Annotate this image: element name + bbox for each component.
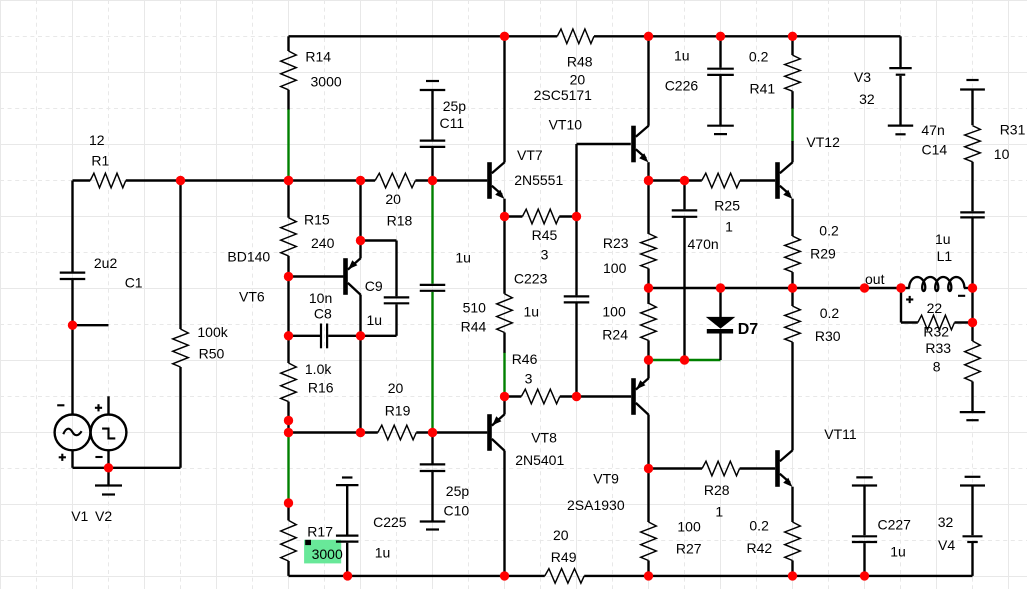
- label R49 value 20: [553, 527, 569, 543]
- junction dot R23-R24: [644, 283, 653, 292]
- inductor L1 plus: [906, 296, 913, 303]
- svg-text:20: 20: [553, 527, 569, 543]
- wire VT9 collector lead: [647, 415, 649, 469]
- wire R16 bottom lead: [287, 402, 289, 421]
- wire R44 bottom lead: [503, 333, 505, 353]
- junction dot R32 right: [968, 318, 977, 327]
- svg-text:25p: 25p: [443, 98, 467, 114]
- selection highlight: [304, 540, 341, 564]
- wire R18 to VT7 base: [415, 179, 487, 181]
- wire R17 top lead: [287, 503, 289, 520]
- wire (green) R16 node down to R17: [287, 433, 289, 503]
- wire R31 top lead: [971, 89, 973, 125]
- wire C9 top: [361, 241, 397, 297]
- label 470n value: [688, 236, 719, 252]
- wire (green) R44 bottom to VT8 node: [503, 352, 505, 396]
- junction dot VT7 emitter: [500, 212, 509, 221]
- svg-text:R41: R41: [750, 80, 776, 96]
- svg-text:1u: 1u: [674, 48, 690, 64]
- junction dot R19 row left: [284, 428, 293, 437]
- wire V2 top lead: [107, 396, 109, 415]
- wire 470n top lead: [683, 181, 685, 210]
- svg-text:R15: R15: [304, 211, 330, 227]
- svg-text:100: 100: [602, 303, 626, 319]
- capacitor C223: [564, 296, 590, 302]
- label C1 value 2u2: [94, 255, 118, 271]
- wire R27 top lead: [647, 469, 649, 523]
- label C223 value 1u: [524, 303, 540, 319]
- capacitor C10: [420, 464, 446, 471]
- svg-text:R27: R27: [676, 540, 702, 556]
- transistor VT10: [631, 126, 649, 163]
- wire VT11 emitter lead: [791, 487, 793, 522]
- transistor VT8: [487, 414, 505, 451]
- wire VT10 base wire: [577, 143, 631, 145]
- wire R32 jog: [901, 288, 918, 323]
- inductor L1: [901, 277, 973, 291]
- resistor R32: [918, 315, 955, 330]
- wire R30 top lead: [791, 288, 793, 306]
- label R14: [305, 49, 331, 65]
- resistor R28: [702, 461, 740, 476]
- junction dot L1 left: [896, 283, 905, 292]
- junction dot R18 right: [428, 176, 437, 185]
- svg-text:2u2: 2u2: [94, 255, 118, 271]
- svg-text:3000: 3000: [311, 74, 342, 90]
- svg-text:R17: R17: [307, 524, 333, 540]
- svg-text:32: 32: [859, 91, 875, 107]
- svg-text:R50: R50: [199, 345, 225, 361]
- svg-text:R1: R1: [91, 152, 109, 168]
- capacitor C8: [321, 324, 327, 349]
- label C14: [922, 142, 948, 158]
- label VT11: [824, 426, 857, 442]
- wire R17 bottom lead: [287, 561, 289, 576]
- junction dot C227 rail: [860, 571, 869, 580]
- junction dot D7 top: [716, 283, 725, 292]
- source V2 plus (top): [95, 404, 102, 411]
- wire R25 left lead: [649, 179, 702, 181]
- junction dot wire node: [356, 176, 365, 185]
- label L1 value 1u: [935, 231, 951, 247]
- label R50: [199, 345, 225, 361]
- ground symbol C225 top: [336, 478, 359, 486]
- wire VT12 emitter lead: [791, 199, 793, 236]
- resistor R44: [497, 294, 513, 333]
- svg-text:2SC5171: 2SC5171: [534, 87, 593, 103]
- label C227 value 1u: [890, 543, 906, 559]
- resistor R17: [281, 520, 297, 561]
- label C227: [878, 517, 912, 533]
- wire R1 row: [73, 179, 376, 181]
- junction dot V2 ground: [104, 463, 113, 472]
- wire R31 bottom lead: [971, 162, 973, 212]
- label VT6: [239, 288, 265, 304]
- svg-text:100: 100: [677, 518, 701, 534]
- svg-text:V2: V2: [95, 508, 112, 524]
- resistor R25: [702, 173, 740, 188]
- wire D7 anode lead: [719, 288, 721, 317]
- svg-text:510: 510: [463, 300, 487, 316]
- label R18 value 20: [385, 191, 401, 207]
- svg-text:VT11: VT11: [824, 426, 857, 442]
- resistor R18: [375, 173, 415, 188]
- label R48 value 20: [570, 71, 586, 87]
- wire R19 to VT8 base: [416, 431, 487, 433]
- label R23 value 100: [603, 260, 627, 276]
- junction dot C225 bottom: [343, 571, 352, 580]
- diode D7: [706, 317, 736, 334]
- source V2 pulse glyph: [102, 429, 115, 439]
- wire R32 right lead: [955, 321, 973, 323]
- wire (green) R41 bottom to VT12 collector: [791, 108, 793, 141]
- resistor R41: [785, 55, 801, 91]
- label VT10: [549, 117, 583, 133]
- source V2 minus (bottom): [95, 456, 102, 458]
- wire V2 bottom lead: [107, 450, 109, 468]
- transistor VT7: [487, 162, 505, 199]
- wire R15 bottom lead: [287, 256, 289, 336]
- resistor R49: [545, 569, 584, 584]
- wire R46 to VT9 base: [577, 395, 632, 397]
- wire C227 lower lead: [863, 543, 865, 576]
- svg-text:C8: C8: [314, 306, 332, 322]
- junction dot 470n bottom: [680, 355, 689, 364]
- wire R44 top lead: [503, 217, 505, 294]
- transistor VT12: [775, 162, 793, 199]
- svg-text:25p: 25p: [446, 483, 470, 499]
- label R17 value 3000: [312, 546, 343, 562]
- source V1 minus (top): [57, 404, 64, 406]
- label R44: [461, 319, 487, 335]
- svg-text:20: 20: [385, 191, 401, 207]
- label R14 value 3000: [311, 74, 342, 90]
- wire R14 top lead: [287, 36, 289, 51]
- label C10: [444, 503, 470, 519]
- source V1 plus (bottom): [59, 454, 66, 461]
- label VT9 type 2SA1930: [567, 497, 625, 513]
- label R49: [551, 549, 577, 565]
- label C11 value 25p: [443, 98, 467, 114]
- svg-text:V3: V3: [854, 69, 871, 85]
- capacitor 470n: [672, 210, 698, 216]
- wire VT12 collector lead: [791, 141, 793, 162]
- junction dot R24 bottom: [644, 355, 653, 364]
- wire C225 lower lead: [346, 543, 348, 576]
- svg-text:0.2: 0.2: [749, 49, 769, 65]
- wire C9 bottom: [361, 304, 397, 335]
- transistor VT6: [343, 258, 361, 295]
- wire VT8 collector lead: [503, 451, 505, 576]
- label R15 value 240: [311, 235, 335, 251]
- resistor R45: [522, 209, 559, 224]
- svg-text:C225: C225: [373, 514, 407, 530]
- wire R24 top lead: [647, 288, 649, 304]
- svg-text:240: 240: [311, 235, 335, 251]
- resistor R14: [281, 51, 297, 90]
- svg-text:C14: C14: [922, 142, 948, 158]
- svg-text:C9: C9: [365, 278, 383, 294]
- junction dot C8-C9 node: [356, 331, 365, 340]
- label R29: [810, 246, 836, 262]
- ground symbol C11 top: [420, 81, 446, 90]
- svg-text:0.2: 0.2: [749, 517, 769, 533]
- label C9: [365, 278, 383, 294]
- capacitor C9: [384, 297, 410, 303]
- wire C226 bottom lead: [719, 76, 721, 126]
- ground symbol C14 top: [960, 80, 985, 90]
- wire V1 bottom lead: [71, 450, 73, 468]
- wire bottom rail: [289, 575, 973, 577]
- wire R19 row left: [289, 431, 378, 433]
- svg-text:R24: R24: [602, 326, 628, 342]
- wire C226 top lead: [719, 36, 721, 67]
- svg-text:R18: R18: [387, 212, 413, 228]
- label V4: [938, 537, 955, 553]
- label R42 value 0.2: [749, 517, 769, 533]
- junction dot VT10 emitter: [644, 176, 653, 185]
- label R48: [567, 54, 593, 70]
- capacitor 1u mid: [420, 285, 446, 291]
- svg-text:C223: C223: [514, 271, 548, 287]
- resistor R24: [641, 303, 657, 340]
- resistor R46: [521, 389, 560, 404]
- svg-text:R32: R32: [923, 323, 949, 339]
- label L1: [937, 248, 953, 264]
- label R30: [815, 328, 841, 344]
- svg-text:20: 20: [570, 71, 586, 87]
- svg-text:R31: R31: [1000, 121, 1026, 137]
- svg-text:2N5551: 2N5551: [514, 172, 563, 188]
- svg-text:D7: D7: [738, 321, 759, 338]
- svg-text:1u: 1u: [935, 231, 951, 247]
- wire V4 upper lead: [971, 486, 973, 536]
- label R17: [307, 524, 333, 540]
- label R16 value 1.0k: [305, 361, 332, 377]
- svg-text:47n: 47n: [921, 122, 944, 138]
- label R41 value 0.2: [749, 49, 769, 65]
- junction dot R16 top: [284, 331, 293, 340]
- ground symbol V3: [888, 126, 913, 135]
- battery V4: [963, 536, 983, 542]
- label R29 value 0.2: [819, 222, 839, 238]
- label R24: [602, 326, 628, 342]
- label C226: [665, 77, 699, 93]
- label C225 value 1u: [375, 545, 391, 561]
- label VT7 type 2N5551: [514, 172, 563, 188]
- svg-text:R19: R19: [385, 403, 411, 419]
- svg-text:VT7: VT7: [517, 147, 543, 163]
- svg-text:20: 20: [388, 380, 404, 396]
- wire R46 right lead: [560, 395, 577, 397]
- svg-text:1u: 1u: [375, 545, 391, 561]
- wire ground stub V1V2: [107, 468, 109, 486]
- junction dot R27 rail: [644, 571, 653, 580]
- svg-text:R48: R48: [567, 54, 593, 70]
- node stub wire: [73, 324, 109, 326]
- svg-text:R46: R46: [512, 351, 538, 367]
- label D7: [738, 321, 759, 338]
- label 1u mid cap: [455, 250, 471, 266]
- resistor R23: [641, 234, 657, 269]
- source V1 sine glyph: [63, 429, 81, 436]
- label R33: [925, 340, 951, 356]
- resistor R50: [173, 329, 189, 367]
- junction dot R41 rail: [788, 32, 797, 41]
- wire VT8 emitter lead: [503, 397, 505, 415]
- svg-text:100: 100: [603, 260, 627, 276]
- wire R15 top lead: [287, 181, 289, 218]
- wire R16 top lead: [287, 336, 289, 363]
- label R41: [750, 80, 776, 96]
- wire C225 upper lead: [346, 485, 348, 534]
- svg-text:R29: R29: [810, 246, 836, 262]
- wire C1 bottom lead: [71, 280, 73, 415]
- wire C10 top lead: [431, 433, 433, 465]
- capacitor C11: [420, 141, 446, 147]
- wire R50 top lead: [179, 181, 181, 330]
- junction dot R28 left: [644, 464, 653, 473]
- label R25 value 1: [725, 219, 733, 235]
- wire C14 bottom lead: [971, 219, 973, 289]
- svg-text:C227: C227: [878, 517, 912, 533]
- svg-text:2N5401: 2N5401: [515, 452, 564, 468]
- junction dot VT10 collector rail: [644, 32, 653, 41]
- label C10 value 25p: [446, 483, 470, 499]
- resistor R19: [378, 425, 417, 440]
- label VT8 type 2N5401: [515, 452, 564, 468]
- label R50 value 100k: [197, 324, 228, 340]
- wire C10 bottom lead: [431, 471, 433, 522]
- resistor R16: [281, 363, 297, 402]
- svg-text:V1: V1: [71, 508, 88, 524]
- capacitor C226: [707, 69, 734, 75]
- junction dot VT12 base node: [644, 176, 653, 185]
- junction dot R19 right: [428, 428, 437, 437]
- label V4 value 32: [938, 514, 954, 530]
- svg-text:1u: 1u: [455, 250, 471, 266]
- source V2 circle: [91, 415, 127, 451]
- label R19: [385, 403, 411, 419]
- wire VT9 emitter lead: [647, 360, 649, 378]
- svg-text:VT8: VT8: [531, 430, 557, 446]
- label R18: [387, 212, 413, 228]
- svg-text:C11: C11: [440, 115, 465, 131]
- label VT9: [593, 471, 619, 487]
- junction dot VT8 collector rail: [500, 571, 509, 580]
- ground symbol C10 bottom: [420, 522, 446, 530]
- label R1 value 12: [89, 132, 105, 148]
- svg-text:32: 32: [938, 514, 954, 530]
- label C225: [373, 514, 407, 530]
- label C1: [125, 274, 143, 290]
- label C223: [514, 271, 548, 287]
- wire R27 bottom lead: [647, 561, 649, 576]
- junction dot R29-R30: [788, 283, 797, 292]
- wire (green) bias row to D7 bottom: [649, 359, 721, 361]
- wire C11 upper lead: [431, 90, 433, 141]
- wire R41 top lead: [791, 36, 793, 55]
- svg-text:BD140: BD140: [227, 249, 270, 265]
- svg-text:3: 3: [525, 370, 533, 386]
- wire R28 left lead: [649, 467, 703, 469]
- svg-text:10n: 10n: [309, 290, 332, 306]
- svg-text:0.2: 0.2: [820, 305, 840, 321]
- svg-text:VT9: VT9: [593, 471, 619, 487]
- label R44 value 510: [463, 300, 487, 316]
- svg-text:C226: C226: [665, 77, 699, 93]
- label C11: [440, 115, 465, 131]
- ground symbol V4 top: [960, 477, 985, 486]
- junction dot C226 rail: [716, 32, 725, 41]
- svg-text:1: 1: [715, 504, 723, 520]
- svg-text:R33: R33: [925, 340, 951, 356]
- wire (green) 1u cap down to R19 node: [431, 292, 433, 433]
- label R27 value 100: [677, 518, 701, 534]
- label VT10 type 2SC5171: [534, 87, 593, 103]
- wire VT6 collector lead: [359, 295, 361, 433]
- wire C11 lower lead: [431, 148, 433, 181]
- wire VT7 collector lead: [503, 36, 505, 162]
- label out: [865, 271, 885, 287]
- junction dot VT6 emitter: [356, 236, 365, 245]
- svg-text:R49: R49: [551, 549, 577, 565]
- wire R45 left lead: [505, 215, 523, 217]
- label R24 value 100: [602, 303, 626, 319]
- label R1: [91, 152, 109, 168]
- wire R28 to VT11 base: [740, 467, 776, 469]
- ground symbol V1V2: [95, 486, 122, 495]
- wire V3 corner: [899, 36, 901, 67]
- label V3 value 32: [859, 91, 875, 107]
- wire C223 column upper: [575, 144, 577, 295]
- svg-text:1.0k: 1.0k: [305, 361, 332, 377]
- label V2: [95, 508, 112, 524]
- junction dot VT7 collector rail: [500, 32, 509, 41]
- wire (green) C11 node down to 1u cap: [431, 181, 433, 284]
- svg-text:1: 1: [725, 219, 733, 235]
- junction dot R46 right: [572, 392, 581, 401]
- wire R25 to VT12 base: [740, 179, 775, 181]
- label C8: [314, 306, 332, 322]
- junction dot R45 right: [572, 212, 581, 221]
- svg-text:R16: R16: [308, 380, 334, 396]
- label R31 value 10: [994, 146, 1010, 162]
- junction dot C1-V1: [68, 321, 77, 330]
- transistor VT9: [631, 378, 649, 415]
- label C9 value 1u: [367, 312, 383, 328]
- resistor R33: [965, 341, 981, 382]
- label R32: [923, 323, 949, 339]
- label R45 value 3: [541, 247, 549, 263]
- svg-text:2SA1930: 2SA1930: [567, 497, 625, 513]
- wire top rail: [289, 35, 901, 37]
- wire V3 bottom lead: [899, 76, 901, 126]
- svg-text:C10: C10: [444, 503, 470, 519]
- transistor VT11: [775, 450, 793, 487]
- wire R46 left lead: [505, 395, 522, 397]
- junction dot out node: [860, 283, 869, 292]
- wire (green) R14 bottom to node: [287, 109, 289, 181]
- label R27: [676, 540, 702, 556]
- label R28: [704, 482, 730, 498]
- wire R29 bottom lead: [791, 272, 793, 288]
- junction dot R19 row mid: [356, 428, 365, 437]
- junction dot R1-R50: [176, 176, 185, 185]
- svg-text:1u: 1u: [890, 543, 906, 559]
- label R30 value 0.2: [820, 305, 840, 321]
- junction dot VT6 base: [284, 272, 293, 281]
